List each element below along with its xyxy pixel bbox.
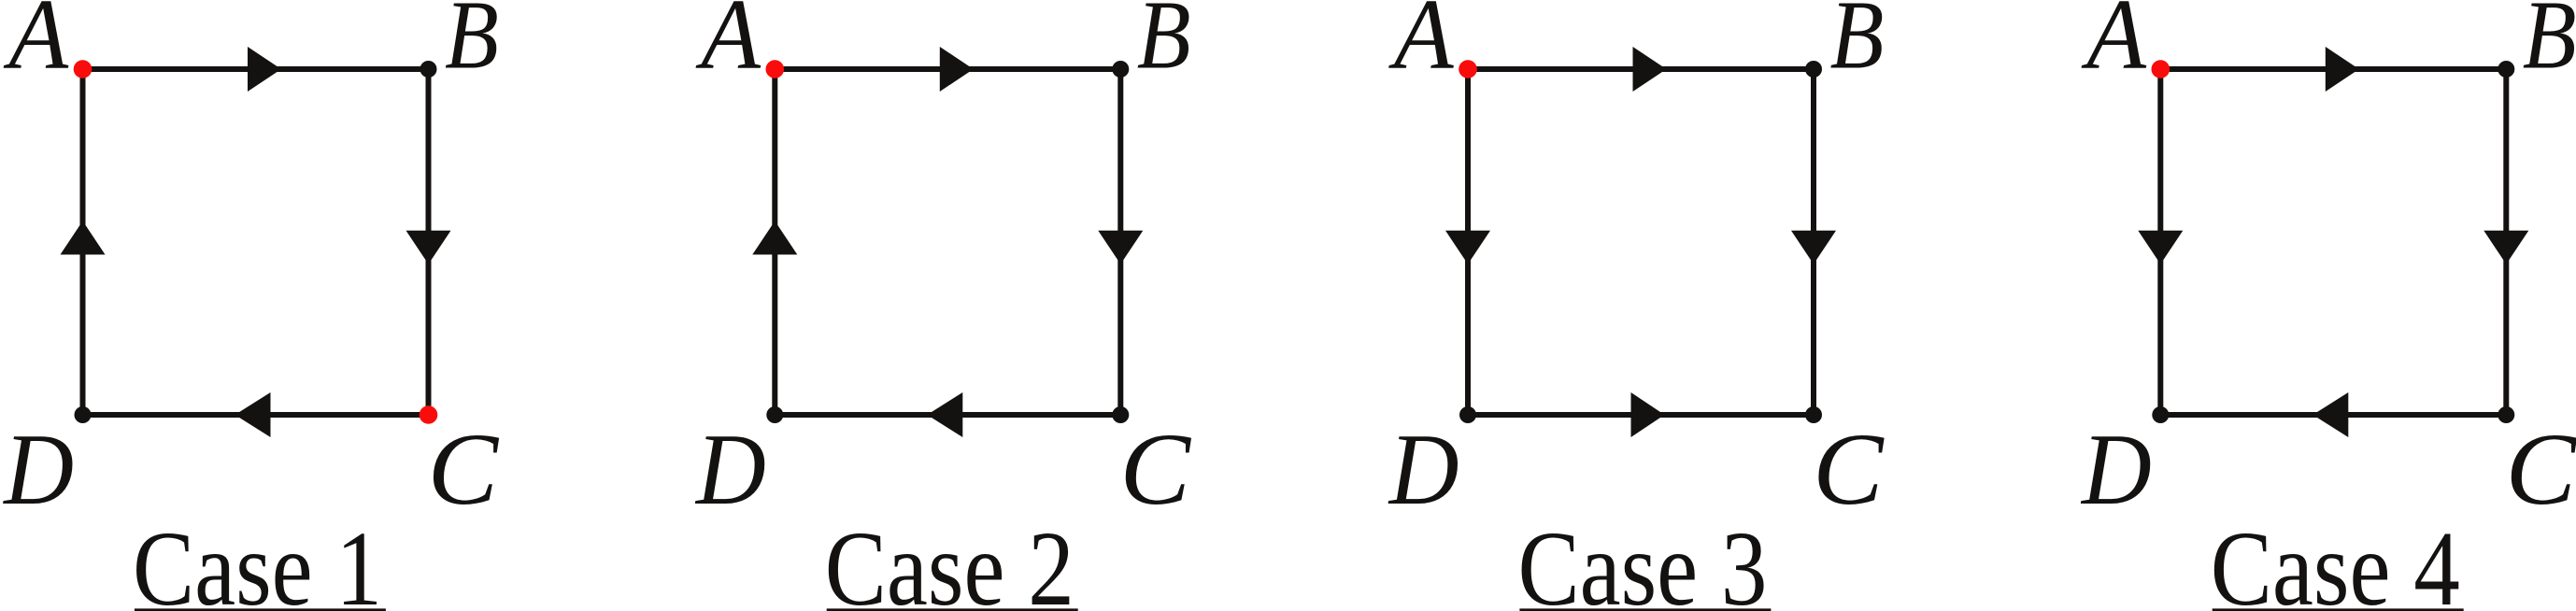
svg-text:C: C — [2506, 412, 2576, 526]
svg-text:C: C — [1120, 412, 1192, 526]
svg-text:D: D — [2080, 413, 2152, 526]
svg-text:B: B — [2523, 0, 2576, 90]
svg-text:B: B — [1830, 0, 1885, 90]
svg-text:D: D — [1388, 413, 1459, 526]
svg-text:B: B — [445, 0, 499, 90]
svg-text:Case 1: Case 1 — [133, 509, 382, 611]
svg-text:B: B — [1137, 0, 1191, 90]
svg-text:A: A — [695, 0, 761, 90]
svg-text:Case 4: Case 4 — [2211, 509, 2460, 611]
svg-text:A: A — [1388, 0, 1454, 90]
svg-text:C: C — [1813, 412, 1885, 526]
svg-text:C: C — [428, 412, 500, 526]
svg-text:Case 3: Case 3 — [1518, 509, 1768, 611]
svg-text:Case 2: Case 2 — [825, 509, 1075, 611]
svg-text:A: A — [4, 0, 69, 90]
svg-text:D: D — [694, 413, 766, 526]
svg-text:D: D — [2, 413, 74, 526]
svg-text:A: A — [2081, 0, 2146, 90]
